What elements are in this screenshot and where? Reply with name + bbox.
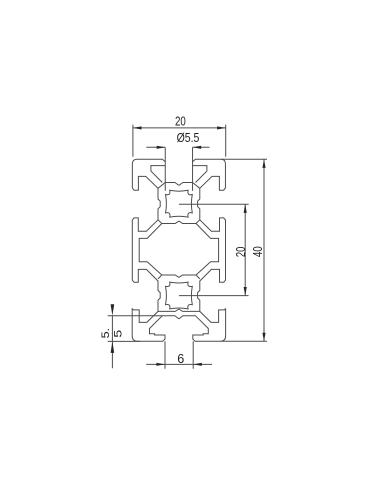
dim 20 top: extension lines xyxy=(133,125,226,157)
profile: outer top corner (left) xyxy=(132,159,165,188)
arrow dim20right top xyxy=(244,204,247,213)
profile: tube2 top edge (right) xyxy=(179,275,196,277)
dim 6 bottom: dimension line xyxy=(146,363,212,365)
arrow dim20top right xyxy=(217,126,226,129)
svg-text:Ø5.5: Ø5.5 xyxy=(177,131,200,145)
arrow dim40 bottom xyxy=(262,333,265,342)
dim 6 bottom: extension lines xyxy=(165,341,193,368)
profile: tube2 top corner (right) xyxy=(196,275,200,279)
profile: channel floor (left) xyxy=(165,183,179,186)
profile: channel wall and dia5.5 extension (right) xyxy=(192,147,194,191)
svg-text:40: 40 xyxy=(252,246,265,257)
svg-text:20: 20 xyxy=(235,247,249,257)
profile: channel floor (right) xyxy=(179,183,193,186)
arrow dim6 right xyxy=(193,363,202,366)
profile: bottom left face and T-slot (right) xyxy=(179,308,226,341)
arrow dim6 left xyxy=(156,363,165,366)
profile: middle cavity left (right) xyxy=(196,224,219,276)
svg-text:20: 20 xyxy=(175,115,186,128)
arrow dim55 up xyxy=(111,341,115,353)
profile: tube1 bottom edge (right) xyxy=(179,220,200,224)
arrow dim20right bottom xyxy=(244,287,247,296)
arrow dim40 top xyxy=(262,159,265,168)
svg-text:5: 5 xyxy=(111,330,124,338)
dim 20 right: dimension line xyxy=(244,204,246,295)
profile: top web pocket (right) xyxy=(193,166,207,183)
profile: tube2 top edge (left) xyxy=(162,275,179,277)
profile: tube2 bottom edge (left) xyxy=(158,309,179,311)
dim 5.5 left: dimension line and tail xyxy=(111,316,113,369)
dim dia5.5: leader lines xyxy=(146,146,209,148)
profile: left side cavities (right) xyxy=(198,176,226,322)
profile: bottom left face and T-slot (left) xyxy=(132,308,179,341)
profile: channel wall and dia5.5 extension (left) xyxy=(164,147,166,191)
arrow dim20top left xyxy=(133,126,142,129)
arrow dia55 right xyxy=(193,146,202,149)
profile: tube1 corner (left) xyxy=(158,183,165,189)
arrow dim55 down xyxy=(111,304,115,316)
arrow dia55 left xyxy=(157,146,166,149)
profile: tube1 corner (right) xyxy=(193,183,200,189)
dim 40: dimension line xyxy=(263,159,265,341)
dim 5.5 left: extension lines xyxy=(108,316,163,342)
core hole bottom xyxy=(166,282,193,309)
profile: tube2 bottom edge (right) xyxy=(179,309,200,311)
dim 40: extension lines xyxy=(221,159,267,341)
profile: top web pocket (left) xyxy=(151,166,165,183)
profile: left side cavities (left) xyxy=(132,176,160,322)
core hole top xyxy=(166,190,193,217)
profile: outer top corner (right) xyxy=(193,159,226,188)
profile: tube2 top corner (left) xyxy=(158,275,162,279)
dim 20 right: extension lines from hole centers xyxy=(179,204,249,295)
profile: tube1 bottom edge (left) xyxy=(158,220,179,224)
dim 20 top: dimension line xyxy=(133,127,226,129)
svg-text:5.: 5. xyxy=(100,328,112,338)
svg-text:6: 6 xyxy=(177,352,184,366)
profile: middle cavity left (left) xyxy=(139,224,162,276)
